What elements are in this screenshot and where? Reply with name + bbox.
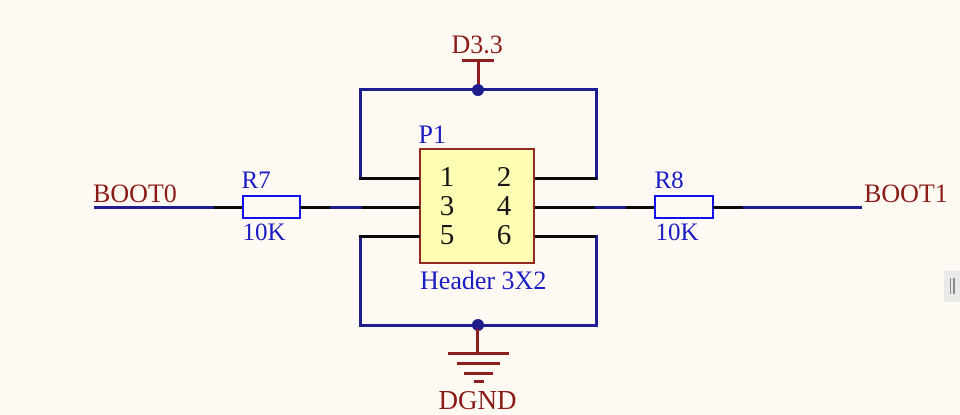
net label BOOT1 xyxy=(864,181,948,207)
splitter handle xyxy=(944,271,960,302)
ground bar 2 xyxy=(457,362,501,365)
power bar xyxy=(462,59,494,62)
pin 4 stub xyxy=(535,206,596,209)
pin number 3 xyxy=(440,192,455,221)
resistor R8 pin stub left xyxy=(626,206,655,209)
pin number 6 xyxy=(497,221,512,250)
power stem xyxy=(477,60,480,87)
ground label DGND xyxy=(439,387,517,414)
wire R7 to P1 xyxy=(330,206,362,209)
wire top horizontal xyxy=(359,88,598,91)
power port D3.3 label xyxy=(452,32,503,58)
resistor R8 pin stub right xyxy=(713,206,744,209)
wire R8 to BOOT1 xyxy=(743,206,862,209)
value 10K (R8) xyxy=(656,220,699,245)
resistor R7 pin stub left xyxy=(214,206,243,209)
wire BOOT0 horizontal xyxy=(94,206,216,209)
wire left vertical lower xyxy=(359,235,362,327)
pin 3 stub xyxy=(362,206,420,209)
pin number 4 xyxy=(497,192,512,221)
ground bar 3 xyxy=(464,372,492,375)
label R7 xyxy=(242,168,271,193)
wire bottom horizontal xyxy=(359,324,598,327)
resistor R8 body xyxy=(654,195,714,219)
ground bar 1 xyxy=(448,352,509,355)
comment Header 3X2 xyxy=(420,268,546,294)
designator P1 xyxy=(419,122,446,148)
splitter grip lines xyxy=(950,278,952,295)
wire P1 to R8 xyxy=(595,206,627,209)
junction bottom xyxy=(472,319,484,331)
pin number 2 xyxy=(497,163,512,192)
pin number 5 xyxy=(440,221,455,250)
resistor R7 pin stub right xyxy=(300,206,330,209)
junction top xyxy=(472,84,484,96)
net label BOOT0 xyxy=(93,181,177,207)
wire right vertical lower xyxy=(595,235,598,327)
wire left vertical upper xyxy=(359,88,362,180)
label R8 xyxy=(655,168,684,193)
resistor R7 body xyxy=(242,195,302,219)
pin 6 stub xyxy=(535,235,596,238)
ground bar 4 xyxy=(474,380,484,383)
wire right vertical upper xyxy=(595,88,598,180)
pin number 1 xyxy=(440,163,455,192)
pin 1 stub xyxy=(359,177,420,180)
header P1 body xyxy=(419,148,536,264)
pin 5 stub xyxy=(359,235,420,238)
value 10K (R7) xyxy=(243,220,286,245)
pin 2 stub xyxy=(535,177,597,180)
ground stem xyxy=(476,329,479,354)
